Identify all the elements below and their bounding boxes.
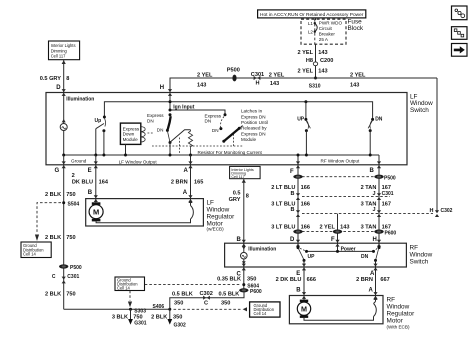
pin F bbox=[290, 161, 300, 175]
banner Hot in ACCY,RUN Or Retained Accessory Power bbox=[258, 10, 366, 18]
svg-text:350: 350 bbox=[173, 314, 182, 320]
svg-text:Express: Express bbox=[123, 126, 140, 131]
svg-text:Switch: Switch bbox=[410, 258, 429, 265]
svg-text:Cell 117: Cell 117 bbox=[231, 175, 244, 179]
wire C 0.35 BLK 350 bbox=[217, 267, 256, 292]
svg-text:S406: S406 bbox=[153, 304, 165, 310]
svg-text:Resistor For Monitoring Curren: Resistor For Monitoring Current bbox=[198, 150, 263, 155]
svg-text:666: 666 bbox=[307, 277, 316, 283]
svg-text:2 BLK: 2 BLK bbox=[151, 314, 167, 320]
wire 0.5 BLK 350 run bbox=[170, 291, 244, 309]
pin F RF switch bbox=[331, 237, 340, 247]
RF motor label bbox=[387, 297, 416, 330]
svg-text:2 YEL: 2 YEL bbox=[269, 72, 285, 78]
express down module U1 bbox=[120, 123, 153, 155]
pin B motor bbox=[88, 190, 98, 202]
svg-text:2 YEL: 2 YEL bbox=[298, 50, 314, 56]
pin D bbox=[56, 85, 66, 96]
svg-text:C302: C302 bbox=[200, 291, 213, 297]
connector P500 on top wire bbox=[227, 68, 240, 82]
svg-text:D: D bbox=[290, 237, 295, 243]
svg-text:167: 167 bbox=[382, 201, 391, 207]
connector P500 on ground wire bbox=[59, 264, 82, 271]
ground G301 bbox=[128, 319, 147, 327]
svg-text:H8: H8 bbox=[306, 58, 313, 64]
svg-text:H: H bbox=[373, 237, 377, 243]
svg-text:Switch: Switch bbox=[410, 107, 429, 114]
illumination lamp RF bbox=[241, 243, 277, 267]
switch express DN 2 bbox=[205, 113, 243, 143]
svg-text:165: 165 bbox=[194, 179, 203, 185]
svg-text:Cell 14: Cell 14 bbox=[254, 311, 267, 316]
wire G to S504 2 BLK 750 bbox=[45, 165, 76, 309]
svg-text:A: A bbox=[183, 190, 188, 196]
svg-text:Cell 14: Cell 14 bbox=[117, 286, 130, 291]
ground distribution cell 14 box right bbox=[250, 302, 280, 317]
svg-text:C301: C301 bbox=[67, 274, 79, 280]
pin B bbox=[370, 161, 382, 174]
fuse block label bbox=[348, 18, 364, 32]
pin A bbox=[184, 161, 193, 174]
svg-text:750: 750 bbox=[133, 314, 142, 320]
label 2 YEL 143 mid bbox=[269, 72, 285, 87]
switch Up bbox=[95, 116, 106, 156]
LF window switch box bbox=[46, 93, 407, 165]
svg-text:Up: Up bbox=[95, 118, 102, 124]
svg-text:C302: C302 bbox=[441, 208, 453, 214]
svg-text:750: 750 bbox=[66, 292, 75, 298]
svg-text:143: 143 bbox=[197, 82, 206, 88]
output bus inside LF switch bbox=[62, 154, 379, 157]
svg-text:2 BRN: 2 BRN bbox=[356, 277, 373, 283]
ECB RF bbox=[373, 296, 377, 317]
pin E RF switch bbox=[296, 264, 306, 278]
interior lights dimming cell 117 box mid bbox=[230, 166, 261, 179]
wire E to RF motor 2 DK BLU 666 bbox=[276, 267, 316, 296]
svg-text:DN: DN bbox=[157, 128, 164, 133]
wire fuse to S310 bbox=[315, 44, 317, 78]
svg-text:Window: Window bbox=[387, 304, 410, 311]
pin G bbox=[55, 161, 66, 174]
svg-text:P600: P600 bbox=[385, 230, 397, 236]
svg-text:DK BLU: DK BLU bbox=[72, 179, 93, 185]
interior lights dimming cell 117 box top left bbox=[49, 41, 80, 60]
svg-text:8: 8 bbox=[246, 193, 249, 199]
splice S504 bbox=[62, 201, 79, 207]
wire A drop bbox=[190, 155, 192, 165]
svg-text:Block: Block bbox=[348, 25, 364, 32]
switch RF UP bbox=[297, 243, 316, 267]
label 2 YEL 143 bbox=[298, 50, 328, 56]
RF window switch box bbox=[225, 243, 407, 267]
svg-text:G301: G301 bbox=[134, 321, 146, 327]
top wire 2 YEL 143 bbox=[170, 78, 437, 93]
dashed arrow S406 to ground distribution cell 14 bbox=[174, 307, 248, 311]
pin H RF switch bbox=[373, 237, 382, 247]
svg-text:Express DN: Express DN bbox=[241, 131, 266, 136]
label 2 YEL 143 left bbox=[197, 72, 213, 88]
svg-text:2 BRN: 2 BRN bbox=[171, 179, 188, 185]
svg-text:L1: L1 bbox=[308, 21, 314, 26]
power bus RF switch bbox=[305, 243, 375, 253]
svg-text:750: 750 bbox=[66, 235, 75, 241]
svg-text:RF: RF bbox=[387, 297, 396, 304]
svg-text:P500: P500 bbox=[384, 175, 396, 181]
svg-text:S310: S310 bbox=[309, 83, 321, 89]
svg-text:GRY: GRY bbox=[229, 197, 241, 203]
switch RF UP in LF switch bbox=[297, 100, 310, 155]
svg-text:143: 143 bbox=[350, 82, 359, 88]
svg-text:S504: S504 bbox=[68, 202, 80, 208]
svg-text:166: 166 bbox=[301, 224, 310, 230]
splice S310 bbox=[309, 77, 321, 90]
svg-text:350: 350 bbox=[247, 277, 256, 283]
svg-text:A: A bbox=[369, 288, 374, 294]
svg-text:Express: Express bbox=[147, 113, 164, 118]
svg-text:UP: UP bbox=[308, 254, 316, 260]
latches note text bbox=[241, 109, 268, 143]
svg-text:143: 143 bbox=[270, 81, 279, 87]
svg-text:Regulator: Regulator bbox=[207, 213, 236, 220]
svg-text:H: H bbox=[160, 85, 164, 91]
ECB LF bbox=[188, 199, 193, 219]
wire G to bottom bbox=[63, 155, 65, 165]
svg-text:B: B bbox=[88, 190, 93, 196]
svg-text:2 DK BLU: 2 DK BLU bbox=[276, 277, 302, 283]
svg-text:Position Until: Position Until bbox=[241, 120, 268, 125]
svg-text:B: B bbox=[370, 168, 375, 174]
svg-text:L2: L2 bbox=[308, 30, 314, 35]
svg-text:2 BLK: 2 BLK bbox=[45, 292, 61, 298]
icon box 2 bbox=[452, 27, 468, 40]
label 2 BLK 750 bbox=[45, 292, 76, 298]
label 2 TAN 167 bbox=[361, 185, 391, 191]
svg-text:C301: C301 bbox=[251, 72, 264, 78]
switch RF DN bbox=[361, 243, 381, 267]
wire LF B to RF H bbox=[378, 165, 380, 243]
svg-text:Power: Power bbox=[341, 247, 356, 253]
svg-text:LF: LF bbox=[207, 199, 215, 206]
svg-text:0.5: 0.5 bbox=[233, 190, 241, 196]
svg-text:C200: C200 bbox=[320, 58, 333, 64]
svg-text:D: D bbox=[56, 85, 61, 91]
dashed arrow to ground distribution cell 14 bbox=[35, 203, 61, 241]
svg-text:B: B bbox=[237, 237, 242, 243]
illumination lamp bbox=[60, 93, 94, 156]
svg-text:C: C bbox=[52, 274, 56, 280]
svg-text:C: C bbox=[204, 301, 208, 307]
svg-text:B: B bbox=[291, 207, 295, 213]
svg-text:RF Window Output: RF Window Output bbox=[321, 158, 361, 163]
svg-text:2 BLK: 2 BLK bbox=[45, 235, 61, 241]
svg-text:166: 166 bbox=[301, 201, 310, 207]
label 3 LT BLU 166 bbox=[271, 224, 310, 230]
label 2 YEL 143 bbox=[298, 68, 328, 74]
pin D RF switch bbox=[290, 237, 300, 247]
wire F drop bbox=[297, 154, 300, 165]
connector C302 row pin H bbox=[291, 207, 453, 243]
svg-text:Express DN: Express DN bbox=[241, 114, 266, 119]
pin B RF motor bbox=[296, 288, 306, 299]
svg-text:Cell 14: Cell 14 bbox=[23, 252, 36, 257]
pin E bbox=[88, 161, 98, 174]
svg-text:2 YEL: 2 YEL bbox=[319, 224, 335, 230]
svg-text:3 BLK: 3 BLK bbox=[112, 314, 128, 320]
svg-text:2: 2 bbox=[72, 173, 75, 179]
svg-text:0.5 BLK: 0.5 BLK bbox=[172, 292, 193, 298]
svg-text:H: H bbox=[256, 81, 260, 87]
svg-text:350: 350 bbox=[174, 301, 183, 307]
svg-text:Latches In: Latches In bbox=[241, 109, 263, 114]
svg-text:750: 750 bbox=[66, 192, 75, 198]
icon box 3 arrow bbox=[452, 44, 468, 57]
RF window regulator motor box bbox=[289, 296, 383, 324]
svg-text:143: 143 bbox=[340, 224, 349, 230]
fuse block dashed box bbox=[301, 19, 346, 44]
pin A motor bbox=[183, 190, 193, 202]
wire banner to fuse block bbox=[315, 18, 317, 20]
LF window switch label bbox=[410, 94, 433, 114]
label 3 TAN 167 bbox=[361, 224, 391, 230]
svg-text:M: M bbox=[93, 208, 99, 217]
circuit breaker PWR WDO 25A bbox=[314, 21, 343, 42]
svg-text:Module: Module bbox=[241, 137, 257, 142]
connector C200 pin H8 bbox=[306, 58, 334, 66]
svg-text:G302: G302 bbox=[174, 323, 186, 329]
connector P500 row bbox=[293, 175, 396, 182]
svg-text:Regulator: Regulator bbox=[387, 311, 416, 318]
splice S303 bbox=[129, 308, 146, 315]
svg-text:A: A bbox=[184, 168, 189, 174]
splice S604 bbox=[242, 283, 259, 289]
svg-text:143: 143 bbox=[318, 50, 327, 56]
LF window regulator motor box bbox=[86, 199, 204, 226]
switch RF DN in LF switch bbox=[368, 116, 383, 155]
switch express DN 1 bbox=[147, 113, 191, 155]
ground G302 bbox=[167, 319, 186, 329]
ground distribution cell 14 box left bbox=[21, 242, 51, 258]
motor M LF bbox=[89, 199, 190, 223]
svg-text:143: 143 bbox=[318, 68, 327, 74]
wire right drop to C302 bbox=[436, 78, 438, 211]
svg-text:G: G bbox=[55, 168, 60, 174]
motor M RF bbox=[297, 296, 373, 321]
svg-text:P500: P500 bbox=[70, 265, 82, 271]
svg-text:166: 166 bbox=[301, 185, 310, 191]
wire to G301 3 BLK 750 bbox=[112, 309, 143, 320]
resistor for monitoring current bbox=[188, 130, 262, 155]
svg-text:Illumination: Illumination bbox=[248, 246, 276, 252]
svg-text:DN: DN bbox=[205, 119, 212, 124]
svg-text:B: B bbox=[291, 191, 295, 197]
svg-text:LF Window Output: LF Window Output bbox=[119, 159, 158, 164]
svg-text:8: 8 bbox=[66, 76, 69, 82]
connector C301 pin H on top wire bbox=[251, 72, 264, 87]
svg-text:J: J bbox=[372, 191, 375, 197]
svg-text:Released by: Released by bbox=[241, 126, 267, 131]
svg-text:E: E bbox=[88, 168, 92, 174]
connector P600 row bbox=[293, 230, 396, 237]
svg-text:DN: DN bbox=[361, 254, 369, 260]
wire A to RF motor 2 BRN 667 bbox=[356, 267, 390, 296]
svg-text:Module: Module bbox=[123, 137, 139, 142]
svg-text:P500: P500 bbox=[227, 68, 240, 74]
label 2 LT BLU 166 bbox=[271, 185, 310, 191]
pin A RF switch bbox=[370, 264, 378, 278]
RF window switch label bbox=[410, 244, 433, 265]
svg-text:(w/ECB): (w/ECB) bbox=[207, 227, 225, 232]
svg-text:2 YEL: 2 YEL bbox=[298, 68, 314, 74]
svg-text:DN: DN bbox=[147, 119, 154, 124]
svg-text:Hot in ACCY,RUN Or Retained Ac: Hot in ACCY,RUN Or Retained Accessory Po… bbox=[260, 12, 364, 18]
svg-text:(With ECB): (With ECB) bbox=[387, 324, 410, 329]
svg-text:P600: P600 bbox=[250, 289, 262, 295]
svg-text:F: F bbox=[290, 169, 294, 175]
label LF Window Output bbox=[119, 159, 158, 164]
mechanical linkage dashes bbox=[152, 134, 243, 154]
pin C RF switch bbox=[237, 264, 246, 278]
svg-text:Illumination: Illumination bbox=[66, 96, 94, 102]
label 3 TAN 167 bbox=[361, 201, 391, 207]
pin A RF motor bbox=[369, 288, 378, 299]
icon box 1 bbox=[452, 6, 468, 20]
ign input bus bbox=[169, 93, 226, 115]
connector P600 on C wire bbox=[239, 288, 262, 295]
connector C301 row bbox=[291, 191, 394, 200]
label Ground bbox=[71, 159, 87, 164]
svg-text:B: B bbox=[296, 288, 301, 294]
power feed wire bbox=[104, 102, 372, 119]
ground distribution cell 14 box mid bbox=[115, 277, 145, 291]
splice S406 bbox=[153, 304, 172, 311]
label RF Window Output bbox=[321, 158, 361, 163]
wire E to motor 2 DK BLU 164 bbox=[72, 165, 109, 199]
connector C301 pin C bbox=[52, 274, 80, 283]
svg-text:2 BLK: 2 BLK bbox=[45, 192, 61, 198]
svg-text:F: F bbox=[331, 237, 335, 243]
svg-text:DN: DN bbox=[375, 116, 383, 122]
svg-text:0.5 GRY: 0.5 GRY bbox=[40, 76, 62, 82]
svg-text:UP: UP bbox=[297, 116, 305, 122]
svg-text:PWR WDO: PWR WDO bbox=[319, 21, 343, 26]
svg-text:J: J bbox=[372, 207, 375, 213]
svg-text:350: 350 bbox=[221, 301, 230, 307]
svg-text:3 LT BLU: 3 LT BLU bbox=[271, 224, 295, 230]
svg-text:667: 667 bbox=[380, 277, 389, 283]
wire B drop bbox=[378, 155, 380, 165]
svg-text:3 TAN: 3 TAN bbox=[361, 224, 377, 230]
pin B RF switch bbox=[237, 237, 246, 247]
LF motor label bbox=[207, 199, 236, 231]
svg-text:0.5 BLK: 0.5 BLK bbox=[219, 292, 240, 298]
svg-text:C301: C301 bbox=[382, 191, 394, 197]
svg-text:0.35 BLK: 0.35 BLK bbox=[217, 277, 241, 283]
svg-text:Ground: Ground bbox=[71, 159, 87, 164]
label 3 LT BLU 166 bbox=[271, 201, 310, 207]
svg-text:DN: DN bbox=[212, 128, 219, 133]
label 2 BLK 750 bbox=[45, 235, 76, 241]
svg-text:Breaker: Breaker bbox=[319, 32, 336, 37]
svg-text:25 A: 25 A bbox=[319, 37, 329, 42]
wire D illumination 0.5 GRY 8 bbox=[40, 60, 70, 93]
svg-text:Down: Down bbox=[123, 132, 135, 137]
wire illumination RF 0.5 GRY 8 bbox=[229, 179, 249, 244]
svg-text:164: 164 bbox=[99, 179, 109, 185]
svg-text:Window: Window bbox=[410, 251, 433, 258]
pin H bbox=[160, 85, 172, 96]
label 2 YEL 143 bbox=[319, 224, 349, 230]
svg-text:H: H bbox=[430, 208, 434, 214]
svg-text:2 YEL: 2 YEL bbox=[197, 72, 213, 78]
svg-text:M: M bbox=[301, 305, 307, 314]
svg-text:Window: Window bbox=[207, 206, 230, 213]
wire A to motor 2 BRN 165 bbox=[171, 165, 203, 199]
label 2 YEL 143 right bbox=[350, 72, 366, 88]
svg-text:2 YEL: 2 YEL bbox=[350, 72, 366, 78]
svg-text:Cell 117: Cell 117 bbox=[51, 54, 66, 59]
dashed line box to S604 bbox=[145, 284, 241, 286]
ground run wire to S303 S406 bbox=[64, 308, 170, 310]
dashed arrow box to S303 bbox=[128, 291, 132, 308]
wire E drop bbox=[95, 155, 97, 165]
wire LF F to RF D bbox=[297, 165, 299, 243]
svg-text:Circuit: Circuit bbox=[319, 26, 333, 31]
svg-text:RF: RF bbox=[410, 244, 419, 251]
wire to G302 2 BLK 350 bbox=[151, 309, 182, 320]
